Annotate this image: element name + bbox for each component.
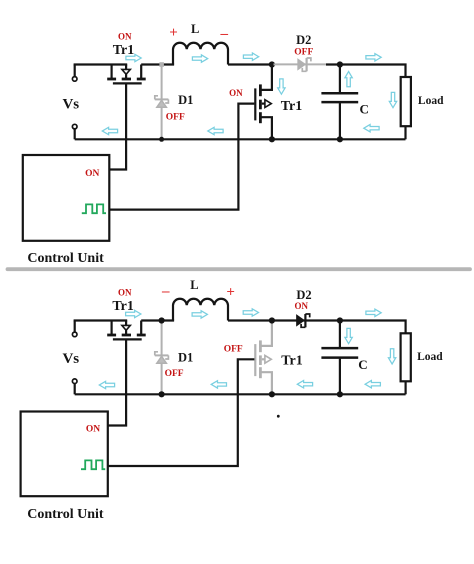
diode D2 (circuit 1, OFF, grey)	[298, 58, 311, 71]
svg-text:Load: Load	[418, 95, 444, 107]
svg-text:ON: ON	[118, 288, 132, 298]
current arrow right of inductor (circuit 2)	[243, 309, 258, 316]
transistor Q Tr1 switch 2 (circuit 2, OFF, grey)	[255, 321, 272, 395]
capacitor C (circuit 2)	[321, 321, 358, 395]
resistor Load (circuit 1)	[401, 77, 411, 126]
svg-text:D1: D1	[178, 351, 193, 365]
svg-text:ON: ON	[229, 88, 243, 98]
svg-text:Load: Load	[417, 351, 443, 363]
node: Tr1 switch 2 drain junction (circuit 2)	[269, 317, 275, 323]
svg-text:ON: ON	[294, 301, 308, 311]
current arrow down capacitor branch (circuit 2)	[345, 328, 352, 343]
inductor L (circuit 2)	[173, 299, 228, 321]
node: Tr1 switch 2 source junction (circuit 1)	[269, 136, 275, 142]
node: Vs negative terminal (circuit 1)	[72, 124, 77, 129]
svg-text:OFF: OFF	[294, 47, 313, 57]
wire: bottom rail (circuit 1)	[75, 138, 406, 140]
stray period mark (circuit 2)	[277, 415, 280, 418]
svg-text:C: C	[358, 357, 367, 372]
current arrow top right toward load (circuit 1)	[366, 54, 381, 61]
node: Tr1 switch 2 drain junction (circuit 1)	[269, 61, 275, 67]
current arrow bottom middle-left return (circuit 2)	[211, 381, 226, 388]
current arrow bottom right return (circuit 2)	[365, 381, 380, 388]
current arrow down Tr1 switch 2 branch (circuit 1)	[278, 79, 285, 94]
svg-text:D1: D1	[178, 93, 193, 107]
wire: gate lead of Tr1 switch 1 to control unit (circuit 2)	[108, 340, 126, 425]
resistor Load (circuit 2)	[401, 333, 411, 381]
diode D2 (circuit 2, ON)	[297, 314, 310, 327]
node: Vs negative terminal (circuit 2)	[72, 379, 77, 384]
node: D1 anode junction on top rail (circuit 1, grey square)	[159, 62, 164, 67]
transistor Q Tr1 switch 2 (circuit 1, ON)	[255, 65, 272, 140]
current arrow over Tr1 switch 1 (circuit 1)	[126, 54, 141, 61]
inductor L (circuit 1)	[173, 43, 228, 65]
wire: load bottom lead (circuit 1)	[404, 126, 406, 139]
svg-text:D2: D2	[296, 288, 311, 302]
transistor Q Tr1 switch 1 (circuit 2, ON)	[107, 321, 146, 340]
current arrow bottom left return (circuit 2)	[99, 381, 114, 388]
current arrow under inductor (circuit 2)	[192, 311, 207, 318]
separator bar between the two states	[8, 267, 471, 271]
svg-text:ON: ON	[85, 169, 99, 179]
current arrow bottom right return (circuit 1)	[364, 125, 379, 132]
wire: top rail, inductor to Tr1 switch 2 drain (circuit 1)	[228, 63, 272, 65]
wire: grey link Tr1 switch 2 to D2 (circuit 1)	[274, 63, 327, 65]
svg-text:D2: D2	[296, 33, 311, 47]
capacitor C (circuit 1)	[321, 65, 358, 140]
node: Vs positive terminal (circuit 2)	[74, 321, 76, 333]
svg-text:–: –	[219, 26, 228, 42]
wire: bottom rail (circuit 2)	[75, 393, 406, 395]
svg-text:Control Unit: Control Unit	[27, 507, 104, 522]
svg-text:OFF: OFF	[166, 112, 185, 122]
current arrow bottom middle-right return (circuit 2)	[297, 381, 312, 388]
current arrow up capacitor branch (circuit 1)	[345, 72, 352, 87]
wire: top rail, Tr1 drain to inductor (circuit 2)	[141, 319, 174, 321]
wire: gate lead of Tr1 switch 1 to control unit (circuit 1)	[110, 84, 127, 169]
wire: top rail, Vs to Tr1 source (circuit 1)	[75, 63, 128, 64]
current arrow bottom left return (circuit 1)	[102, 127, 117, 134]
node: D1 cathode junction on bottom rail (circuit 1)	[159, 137, 164, 142]
current arrow down through load (circuit 2)	[388, 349, 395, 364]
node: capacitor bottom junction (circuit 1)	[337, 136, 343, 142]
node: capacitor bottom junction (circuit 2)	[337, 391, 343, 397]
current arrow right of inductor (circuit 1)	[243, 53, 258, 60]
transistor Q Tr1 switch 1 (circuit 1, ON)	[107, 65, 146, 84]
gate pulse waveform (circuit 1)	[82, 204, 106, 213]
current arrow down through load (circuit 1)	[389, 92, 396, 107]
node: capacitor top junction (circuit 1)	[337, 61, 343, 67]
current arrow top right toward load (circuit 2)	[366, 309, 381, 316]
wire: gate wire of Tr1 switch 2 from control unit (circuit 1)	[110, 104, 255, 210]
diode D1 (circuit 2, OFF, grey)	[155, 321, 169, 395]
svg-text:C: C	[360, 101, 369, 116]
wire: gate wire of Tr1 switch 2 from control unit (circuit 2)	[108, 359, 254, 466]
current arrow bottom middle return (circuit 1)	[208, 127, 223, 134]
current arrow over Tr1 switch 1 (circuit 2)	[126, 310, 141, 317]
svg-text:+: +	[226, 284, 235, 300]
svg-text:ON: ON	[118, 32, 132, 42]
node: capacitor top junction (circuit 2)	[337, 317, 343, 323]
node: Tr1 switch 2 source junction (circuit 2)	[269, 391, 275, 397]
control unit box (circuit 1)	[23, 155, 110, 241]
wire: top rail, D2 to load corner (circuit 1)	[326, 65, 406, 78]
control unit box (circuit 2)	[21, 412, 108, 497]
svg-text:OFF: OFF	[165, 369, 184, 379]
diode D1 (circuit 1, OFF, grey)	[155, 65, 169, 140]
svg-text:L: L	[190, 278, 198, 292]
svg-text:–: –	[161, 284, 170, 300]
svg-text:Vs: Vs	[62, 351, 79, 367]
node: D1 anode junction on top rail (circuit 2)	[159, 317, 165, 323]
svg-text:+: +	[169, 25, 178, 41]
svg-text:OFF: OFF	[224, 345, 243, 355]
wire: top rail, inductor to load corner (circuit 2)	[228, 321, 406, 334]
svg-text:Tr1: Tr1	[281, 99, 303, 114]
svg-text:Vs: Vs	[62, 97, 79, 113]
svg-text:ON: ON	[86, 425, 100, 435]
gate pulse waveform (circuit 2)	[81, 460, 105, 469]
wire: top rail, Vs to Tr1 source (circuit 2)	[75, 319, 128, 320]
wire: top rail, Tr1 drain to inductor (circuit 1)	[141, 63, 174, 65]
current arrow under inductor (circuit 1)	[192, 55, 207, 62]
svg-text:Tr1: Tr1	[281, 354, 303, 369]
node: Vs positive terminal (circuit 1)	[74, 65, 76, 77]
node: D1 cathode junction on bottom rail (circuit 2)	[159, 391, 165, 397]
svg-text:Control Unit: Control Unit	[27, 251, 104, 266]
svg-text:L: L	[191, 22, 199, 36]
wire: load bottom lead (circuit 2)	[405, 381, 407, 394]
